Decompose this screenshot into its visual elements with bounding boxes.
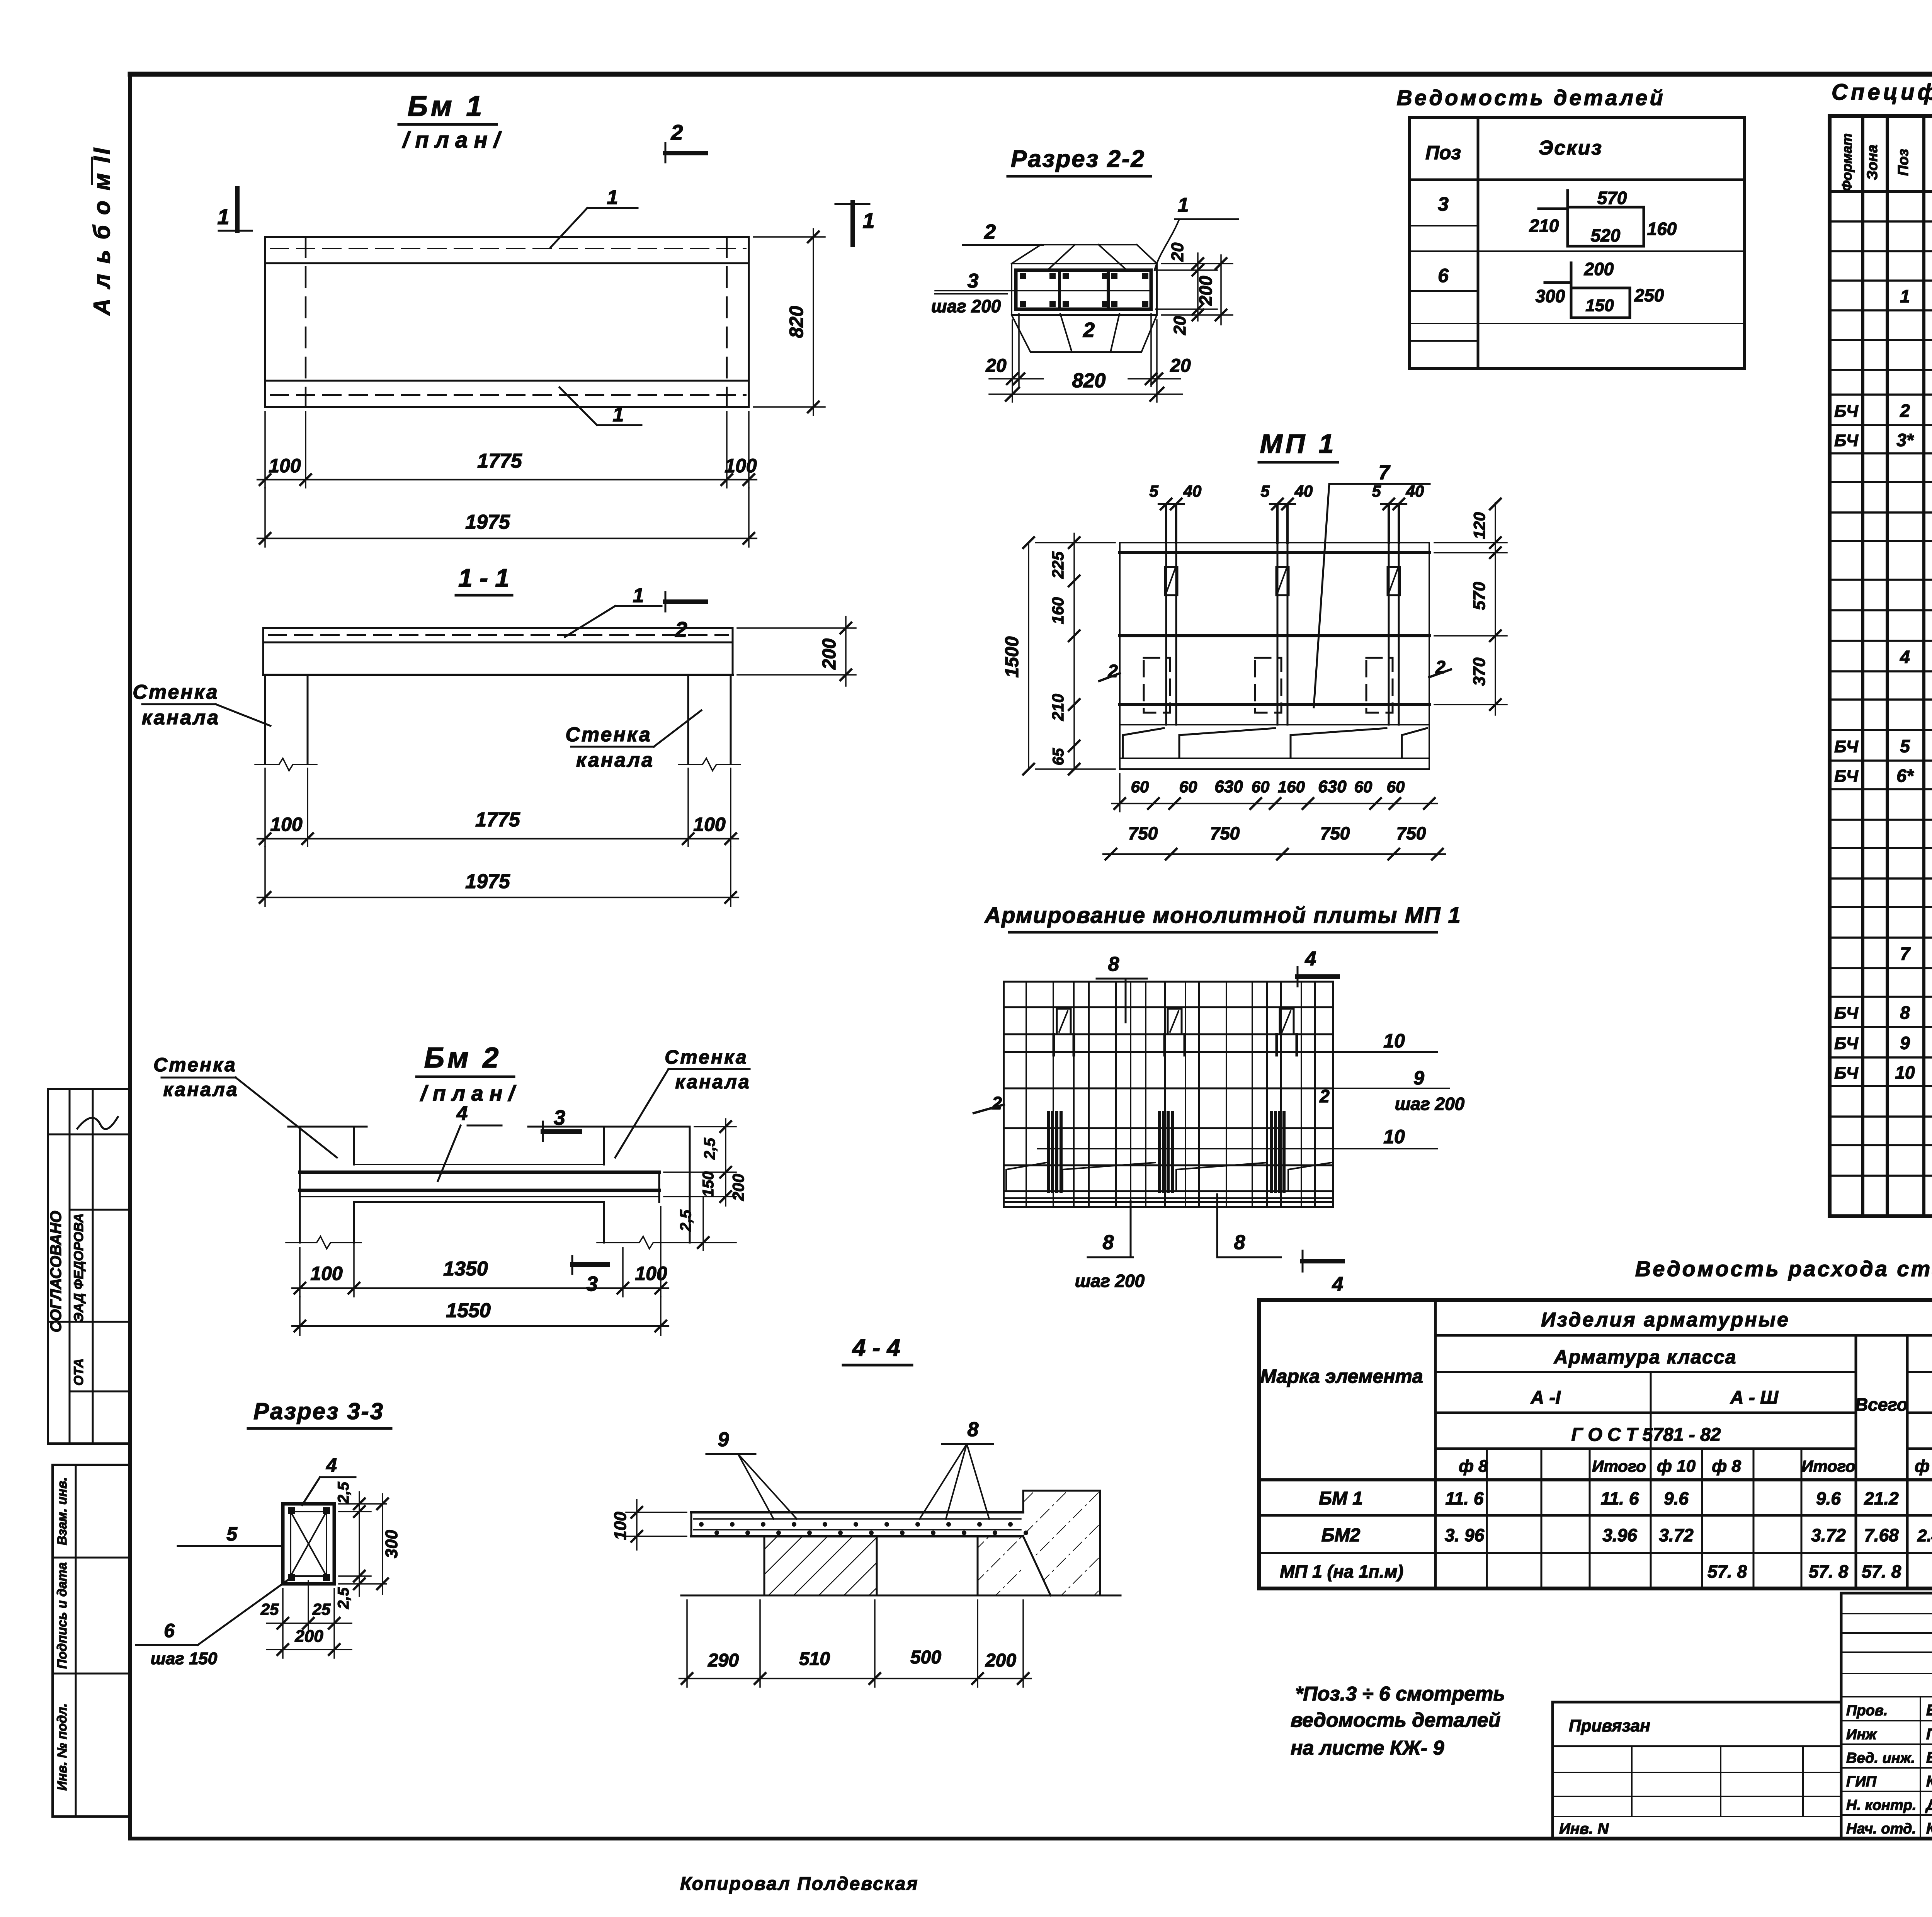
MP1 left dims <box>1028 543 1029 769</box>
4-4 slab rebar dots <box>699 1522 704 1527</box>
svg-text:ЭАД ФЕДОРОВА: ЭАД ФЕДОРОВА <box>71 1213 86 1322</box>
svg-text:Эскиз: Эскиз <box>1539 137 1603 159</box>
svg-text:Нач. отд.: Нач. отд. <box>1846 1821 1916 1837</box>
svg-text:7.68: 7.68 <box>1864 1525 1899 1545</box>
svg-text:100: 100 <box>635 1263 667 1284</box>
BM2 right wall <box>528 1126 690 1128</box>
BM2 right dims <box>694 1126 736 1127</box>
svg-text:11. 6: 11. 6 <box>1446 1488 1484 1508</box>
svg-text:200: 200 <box>1584 259 1614 279</box>
svg-text:Инж: Инж <box>1846 1726 1877 1743</box>
svg-text:2: 2 <box>1319 1086 1330 1106</box>
svg-text:Стенка: Стенка <box>665 1046 748 1068</box>
MP1 bottom dims row2 750 <box>1103 853 1445 855</box>
svg-text:4: 4 <box>1332 1273 1344 1296</box>
BM1 dim row 100-1775-100 <box>264 412 266 488</box>
svg-text:20: 20 <box>985 356 1007 376</box>
svg-text:3*: 3* <box>1896 430 1914 450</box>
BM2 left wall <box>288 1126 367 1128</box>
svg-text:Формат: Формат <box>1839 133 1855 191</box>
svg-text:1: 1 <box>1900 286 1910 306</box>
BM1 dim row 1975 <box>264 488 266 547</box>
svg-text:3: 3 <box>968 270 979 292</box>
svg-text:4: 4 <box>1900 647 1910 667</box>
svg-text:1975: 1975 <box>465 511 510 533</box>
svg-text:/ п л а н /: / п л а н / <box>401 128 502 153</box>
svg-text:Поз: Поз <box>1895 149 1912 176</box>
svg-text:160: 160 <box>1647 219 1677 239</box>
svg-text:10: 10 <box>1895 1062 1915 1083</box>
svg-text:60: 60 <box>1354 778 1372 796</box>
svg-text:40: 40 <box>1294 482 1313 500</box>
MP1 plan outline <box>1120 542 1429 543</box>
svg-text:4: 4 <box>326 1454 337 1476</box>
svg-text:БЧ: БЧ <box>1834 767 1859 786</box>
svg-text:500: 500 <box>910 1647 941 1668</box>
svg-text:57. 8: 57. 8 <box>1809 1561 1849 1582</box>
svg-text:7: 7 <box>1900 944 1911 964</box>
svg-text:Всего: Всего <box>1855 1394 1908 1415</box>
svg-text:КУЗНЕЦОВ: КУЗНЕЦОВ <box>1926 1773 1932 1790</box>
svg-text:Бм 1: Бм 1 <box>408 90 485 122</box>
svg-text:ГИП: ГИП <box>1846 1774 1877 1790</box>
svg-text:20: 20 <box>1170 356 1191 376</box>
2-2 rebar dots <box>1020 273 1026 279</box>
svg-text:БЧ: БЧ <box>1834 1004 1859 1023</box>
svg-text:2: 2 <box>992 1093 1002 1113</box>
svg-text:канала: канала <box>675 1071 750 1093</box>
svg-text:210: 210 <box>1049 694 1067 721</box>
svg-text:2.45: 2.45 <box>1917 1526 1932 1545</box>
svg-text:1550: 1550 <box>446 1299 491 1322</box>
left margin stamp <box>48 1088 131 1090</box>
svg-text:канала: канала <box>142 707 220 729</box>
2-2 bottom chamfer <box>1031 351 1141 353</box>
leader 1 on slab <box>615 605 662 607</box>
svg-text:120: 120 <box>1470 512 1488 539</box>
svg-text:1500: 1500 <box>1002 636 1022 678</box>
svg-text:100: 100 <box>724 455 757 477</box>
svg-text:/ п л а н /: / п л а н / <box>420 1081 517 1105</box>
svg-text:шаг 200: шаг 200 <box>1395 1094 1465 1114</box>
svg-text:300: 300 <box>1536 286 1565 306</box>
svg-text:570: 570 <box>1470 582 1489 610</box>
svg-text:60: 60 <box>1252 778 1270 796</box>
svg-text:25: 25 <box>312 1600 331 1618</box>
armature grid <box>1004 981 1333 983</box>
svg-text:5: 5 <box>1260 482 1270 500</box>
svg-text:ДАНИЛЕВСКИЙ: ДАНИЛЕВСКИЙ <box>1925 1795 1932 1813</box>
svg-text:БАБИКОВА: БАБИКОВА <box>1926 1749 1932 1766</box>
svg-text:*Поз.3 ÷ 6 смотреть: *Поз.3 ÷ 6 смотреть <box>1295 1683 1505 1705</box>
svg-text:БЧ: БЧ <box>1834 1064 1859 1083</box>
svg-text:630: 630 <box>1318 777 1347 796</box>
steel table <box>1259 1300 1932 1588</box>
svg-text:290: 290 <box>707 1650 739 1671</box>
svg-text:2,5: 2,5 <box>701 1137 718 1159</box>
MP1 bent plate wedges <box>1123 728 1164 757</box>
1-1 left leg <box>264 675 266 763</box>
svg-text:20: 20 <box>1170 316 1189 335</box>
svg-text:100: 100 <box>270 814 303 835</box>
MP1 bottom dims row1 <box>1119 774 1121 812</box>
svg-text:25: 25 <box>260 1600 279 1618</box>
svg-text:3: 3 <box>586 1272 598 1296</box>
svg-text:Копировал Полдевская: Копировал Полдевская <box>680 1874 919 1894</box>
title block <box>1551 1702 1554 1838</box>
svg-text:Армирование монолитной плиты М: Армирование монолитной плиты МП 1 <box>984 903 1461 928</box>
MP1 stud vertical lines through plan <box>1165 543 1167 725</box>
svg-text:1: 1 <box>607 186 618 209</box>
svg-text:6: 6 <box>1438 265 1449 286</box>
BM2 dim row 1550 <box>299 1297 301 1335</box>
BM2 bottom break lines <box>286 1236 361 1249</box>
svg-text:210: 210 <box>1529 216 1559 236</box>
svg-text:Итого: Итого <box>1592 1457 1646 1475</box>
4-4 right wall hatched <box>1023 1491 1100 1536</box>
section 1-1 slab <box>263 627 733 629</box>
svg-text:Изделия арматурные: Изделия арматурные <box>1541 1309 1790 1331</box>
svg-text:1775: 1775 <box>477 450 522 472</box>
svg-text:Арматура класса: Арматура класса <box>1553 1346 1737 1368</box>
svg-text:Итого: Итого <box>1801 1457 1855 1475</box>
svg-text:ОТА: ОТА <box>71 1359 86 1386</box>
MP1 small holes row <box>1165 567 1177 595</box>
svg-text:1 - 1: 1 - 1 <box>458 564 509 592</box>
svg-text:МП 1 (на 1п.м): МП 1 (на 1п.м) <box>1280 1561 1403 1582</box>
svg-text:2: 2 <box>1900 401 1910 421</box>
svg-text:100: 100 <box>611 1512 630 1540</box>
svg-text:100: 100 <box>269 455 301 477</box>
svg-text:А -I: А -I <box>1530 1388 1561 1408</box>
svg-text:шаг 200: шаг 200 <box>931 296 1001 316</box>
BM2 walls below plate <box>353 1202 355 1243</box>
svg-text:шаг 200: шаг 200 <box>1075 1271 1145 1291</box>
svg-text:1775: 1775 <box>475 809 520 831</box>
svg-text:1350: 1350 <box>443 1258 488 1280</box>
svg-text:9: 9 <box>718 1428 729 1451</box>
4-4 slab <box>691 1511 1023 1514</box>
svg-text:520: 520 <box>1591 225 1621 245</box>
svg-text:ГОЛОВАНОВА: ГОЛОВАНОВА <box>1926 1726 1932 1743</box>
svg-text:1: 1 <box>217 204 229 229</box>
svg-text:3.72: 3.72 <box>1811 1525 1846 1545</box>
4-4 left support hatched <box>764 1536 877 1595</box>
svg-text:750: 750 <box>1320 823 1350 843</box>
1-1 dim row 100-1775-100 <box>264 768 266 846</box>
svg-text:200: 200 <box>819 638 840 670</box>
MP1 anchor studs above <box>1165 504 1167 543</box>
svg-text:Взам. инв.: Взам. инв. <box>55 1477 70 1545</box>
svg-text:630: 630 <box>1214 777 1243 796</box>
svg-text:Спецификация монолитных эл: Спецификация монолитных элементов <box>1832 80 1932 105</box>
svg-text:Зона: Зона <box>1864 145 1881 180</box>
svg-text:57. 8: 57. 8 <box>1708 1561 1747 1582</box>
svg-text:5: 5 <box>1149 482 1158 500</box>
svg-text:Инв. № подл.: Инв. № подл. <box>55 1703 70 1791</box>
beam BM1 plan outline <box>265 236 749 238</box>
BM2 plate <box>300 1171 659 1174</box>
svg-text:Марка элемента: Марка элемента <box>1260 1365 1423 1387</box>
svg-text:7: 7 <box>1379 461 1391 484</box>
svg-text:БЧ: БЧ <box>1834 431 1859 450</box>
leader 1 bottom <box>597 424 641 426</box>
svg-text:5: 5 <box>1900 736 1910 756</box>
svg-text:225: 225 <box>1049 551 1067 579</box>
svg-text:8: 8 <box>1900 1003 1910 1023</box>
svg-text:5: 5 <box>226 1523 238 1545</box>
svg-text:4 - 4: 4 - 4 <box>852 1335 900 1361</box>
svg-text:9: 9 <box>1900 1033 1910 1053</box>
svg-text:на листе КЖ- 9: на листе КЖ- 9 <box>1291 1737 1444 1759</box>
svg-text:10: 10 <box>1383 1126 1405 1147</box>
svg-text:1975: 1975 <box>465 870 510 893</box>
svg-text:3. 96: 3. 96 <box>1445 1525 1485 1545</box>
svg-text:3.72: 3.72 <box>1659 1525 1694 1545</box>
svg-text:2: 2 <box>675 617 687 642</box>
svg-text:10: 10 <box>1383 1030 1405 1052</box>
svg-text:Бм 2: Бм 2 <box>424 1042 502 1074</box>
svg-text:8: 8 <box>1108 953 1119 976</box>
svg-text:МП 1: МП 1 <box>1260 429 1337 459</box>
svg-text:11. 6: 11. 6 <box>1601 1488 1639 1508</box>
4-4 bottom dims <box>686 1600 688 1687</box>
svg-text:ф 8: ф 8 <box>1712 1457 1741 1476</box>
svg-text:2: 2 <box>984 220 996 243</box>
svg-text:510: 510 <box>799 1649 830 1669</box>
svg-text:300: 300 <box>382 1530 401 1558</box>
svg-text:Н. контр.: Н. контр. <box>1846 1797 1917 1813</box>
2-2 top chamfer <box>1041 244 1137 245</box>
svg-text:20: 20 <box>1168 242 1187 262</box>
svg-text:820: 820 <box>786 306 807 338</box>
2-2 rebar cage <box>1016 270 1151 309</box>
svg-text:БЧ: БЧ <box>1834 1034 1859 1053</box>
svg-text:шаг 150: шаг 150 <box>151 1649 218 1668</box>
3-3 bottom dims <box>282 1588 284 1658</box>
svg-text:8: 8 <box>1103 1231 1114 1254</box>
svg-text:БАБИКОВА: БАБИКОВА <box>1926 1702 1932 1719</box>
svg-text:9.6: 9.6 <box>1664 1488 1689 1508</box>
section mark 4 top <box>1297 967 1299 986</box>
sketch pos 6 <box>1570 263 1573 318</box>
svg-text:200: 200 <box>729 1174 747 1201</box>
svg-text:Г О С Т 5781 - 82: Г О С Т 5781 - 82 <box>1571 1425 1721 1445</box>
BM1 hidden rebar lines <box>270 248 746 249</box>
svg-text:Разрез 2-2: Разрез 2-2 <box>1011 146 1145 172</box>
svg-text:1: 1 <box>633 584 644 607</box>
svg-text:160: 160 <box>1278 778 1305 796</box>
2-2 right dims <box>1162 263 1233 264</box>
vedomost detaley table frame <box>1410 117 1745 368</box>
svg-text:1: 1 <box>1178 194 1189 216</box>
3-3 cross section <box>283 1504 334 1584</box>
svg-text:Разрез 3-3: Разрез 3-3 <box>253 1398 384 1424</box>
svg-text:Ведомость расхода стали: Ведомость расхода стали на элемент, кг <box>1635 1256 1932 1281</box>
section mark 2 bottom <box>665 592 667 611</box>
svg-text:250: 250 <box>1634 285 1664 305</box>
svg-text:ведомость деталей: ведомость деталей <box>1291 1709 1501 1731</box>
grid anchor boxes <box>1057 1009 1071 1034</box>
4-4 middle support hatched <box>978 1536 1023 1595</box>
svg-text:200: 200 <box>294 1627 323 1646</box>
svg-text:1: 1 <box>613 403 624 426</box>
svg-text:Стенка: Стенка <box>133 681 219 703</box>
svg-text:ф 8: ф 8 <box>1459 1457 1488 1476</box>
BM2 dim row 100-1350-100 <box>299 1248 301 1297</box>
MP1 dashed anchor plates <box>1144 658 1170 713</box>
svg-text:9: 9 <box>1413 1067 1424 1089</box>
svg-text:канала: канала <box>163 1079 238 1100</box>
svg-text:канала: канала <box>576 749 654 771</box>
MP1 right dims <box>1434 542 1507 543</box>
svg-text:60: 60 <box>1131 778 1149 796</box>
BM1 channel wall hidden lines <box>305 237 307 407</box>
BM2 channel top edge <box>354 1164 604 1165</box>
svg-text:8: 8 <box>968 1418 979 1441</box>
svg-text:57. 8: 57. 8 <box>1862 1561 1901 1582</box>
svg-text:4: 4 <box>456 1102 468 1125</box>
section mark 3 bottom <box>571 1256 573 1274</box>
svg-text:6: 6 <box>164 1620 175 1641</box>
sketch pos 3 <box>1566 191 1569 246</box>
svg-text:370: 370 <box>1470 657 1489 686</box>
svg-text:750: 750 <box>1128 823 1158 843</box>
svg-text:100: 100 <box>693 814 726 835</box>
svg-text:БМ2: БМ2 <box>1321 1525 1361 1546</box>
svg-text:3: 3 <box>1438 193 1449 215</box>
leader 1 top <box>587 207 638 209</box>
svg-text:Стенка: Стенка <box>565 724 651 746</box>
section mark 1 right <box>850 202 855 245</box>
4-4 dim 100 left <box>626 1512 687 1513</box>
svg-text:160: 160 <box>1049 597 1067 624</box>
1-1 right leg <box>687 675 689 763</box>
BM1 dim 820 right <box>753 236 825 238</box>
2-2 formwork outline <box>1012 264 1157 315</box>
svg-text:8: 8 <box>1234 1231 1245 1254</box>
svg-text:Подпись и дата: Подпись и дата <box>55 1562 70 1669</box>
svg-text:200: 200 <box>1196 276 1216 306</box>
svg-text:А - Ш: А - Ш <box>1730 1388 1779 1408</box>
svg-text:КРАСАВИН: КРАСАВИН <box>1926 1820 1932 1837</box>
svg-text:БЧ: БЧ <box>1834 737 1859 756</box>
svg-text:БМ 1: БМ 1 <box>1319 1488 1363 1509</box>
svg-text:150: 150 <box>1585 296 1614 315</box>
4-4 ground line <box>681 1595 1121 1597</box>
svg-text:9.6: 9.6 <box>1816 1488 1841 1508</box>
grid stud clusters <box>1047 1112 1050 1191</box>
svg-text:4: 4 <box>1305 948 1316 970</box>
svg-text:750: 750 <box>1396 823 1426 843</box>
svg-text:200: 200 <box>985 1650 1016 1671</box>
svg-text:Привязан: Привязан <box>1569 1716 1650 1735</box>
svg-text:3.96: 3.96 <box>1602 1525 1637 1545</box>
sheet border frame <box>130 72 1932 77</box>
2-2 bottom dims <box>1012 320 1013 402</box>
svg-text:2: 2 <box>1083 318 1095 342</box>
svg-text:65: 65 <box>1050 748 1067 765</box>
specification table <box>1830 116 1932 1216</box>
vedomost rows <box>1410 250 1745 252</box>
svg-text:820: 820 <box>1072 369 1106 392</box>
svg-text:2,5: 2,5 <box>335 1481 352 1503</box>
svg-text:Стенка: Стенка <box>153 1054 237 1076</box>
svg-text:Поз: Поз <box>1425 142 1461 163</box>
svg-text:6*: 6* <box>1896 766 1914 786</box>
svg-text:СОГЛАСОВАНО: СОГЛАСОВАНО <box>48 1211 65 1333</box>
svg-text:750: 750 <box>1210 823 1240 843</box>
svg-text:Пров.: Пров. <box>1846 1702 1888 1719</box>
section mark 4 bottom <box>1302 1251 1304 1272</box>
svg-text:БЧ: БЧ <box>1834 402 1859 421</box>
3-3 right dims <box>339 1503 386 1505</box>
svg-text:100: 100 <box>310 1263 343 1284</box>
grid labels right <box>1043 1051 1437 1053</box>
svg-text:21.2: 21.2 <box>1864 1488 1899 1508</box>
svg-text:2,5: 2,5 <box>677 1209 694 1231</box>
1-1 dim row 1975 <box>264 846 266 906</box>
svg-text:2: 2 <box>670 120 683 145</box>
svg-text:Ведомость деталей: Ведомость деталей <box>1396 85 1665 110</box>
svg-text:2,5: 2,5 <box>335 1587 352 1609</box>
svg-text:570: 570 <box>1597 188 1627 208</box>
svg-text:ф 16: ф 16 <box>1915 1457 1932 1476</box>
svg-text:60: 60 <box>1179 778 1197 796</box>
grid wedges <box>1006 1163 1046 1190</box>
svg-text:Вед. инж.: Вед. инж. <box>1846 1750 1915 1766</box>
svg-text:ф 10: ф 10 <box>1657 1457 1696 1476</box>
svg-text:1: 1 <box>862 208 874 233</box>
1-1 dim 200 right <box>737 627 856 629</box>
svg-text:60: 60 <box>1387 778 1405 796</box>
svg-text:Инв. N: Инв. N <box>1559 1820 1609 1837</box>
svg-text:40: 40 <box>1183 482 1202 500</box>
svg-text:150: 150 <box>700 1171 717 1197</box>
